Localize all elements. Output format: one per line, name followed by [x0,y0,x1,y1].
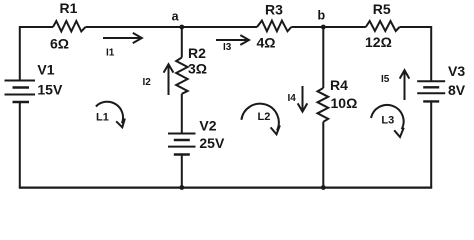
svg-text:I3: I3 [223,42,232,53]
svg-text:8V: 8V [448,82,466,98]
svg-text:15V: 15V [37,82,63,98]
svg-text:25V: 25V [199,135,225,151]
wire R3 to R5 (through node b) [291,26,366,28]
resistor R3 [257,21,291,32]
battery V1 [5,81,36,103]
node a [179,25,184,30]
resistor R1 [53,21,86,31]
svg-text:V2: V2 [199,117,216,133]
svg-text:I2: I2 [143,77,152,88]
svg-text:R2: R2 [188,45,206,61]
svg-text:I4: I4 [288,93,297,104]
resistor R4 [318,88,329,122]
svg-text:R4: R4 [330,77,348,93]
svg-text:V3: V3 [448,63,465,79]
svg-text:a: a [172,10,180,24]
current arrow I2 [164,64,174,95]
resistor R2 [176,58,187,94]
resistor R5 [366,21,400,31]
wire top-right corner down to V3 [400,27,432,81]
battery V2 [168,134,196,155]
svg-text:L1: L1 [96,112,109,124]
loop arrow L2 [241,104,280,135]
wire R4 to bottom junction [322,122,324,188]
current arrow I3 [216,35,249,45]
wire node b down to R4 [322,27,324,88]
junction V2-bottom [179,185,184,190]
svg-text:10Ω: 10Ω [331,95,358,111]
junction R4-bottom [321,185,326,190]
svg-text:3Ω: 3Ω [188,61,207,77]
svg-text:I1: I1 [106,48,115,59]
wire V3 to bottom-right corner [430,101,432,187]
loop arrow L3 [371,105,404,137]
svg-text:I5: I5 [381,74,390,85]
svg-text:L3: L3 [381,115,394,127]
current arrow I1 [103,33,142,43]
svg-text:4Ω: 4Ω [257,35,276,51]
wire V2 to bottom junction [181,155,183,188]
svg-text:L2: L2 [258,111,271,123]
battery V3 [417,81,445,101]
svg-text:V1: V1 [37,62,54,78]
wire R2 to V2 [181,94,183,134]
current arrow I4 [298,86,308,112]
svg-text:6Ω: 6Ω [50,36,69,52]
svg-text:R1: R1 [60,0,78,16]
current arrow I5 [400,70,410,100]
svg-text:R3: R3 [265,2,283,18]
wire R1 to R3 (through node a) [86,26,258,28]
loop arrow L1 [96,102,125,128]
svg-text:b: b [318,9,326,23]
wire node a down to R2 [181,27,183,58]
svg-text:12Ω: 12Ω [365,34,392,50]
wire bottom [19,187,432,189]
svg-text:R5: R5 [373,1,391,17]
wire V1 to bottom-left corner [19,102,21,188]
node b [321,25,326,30]
wire top-left: corner to R1 [20,27,53,81]
